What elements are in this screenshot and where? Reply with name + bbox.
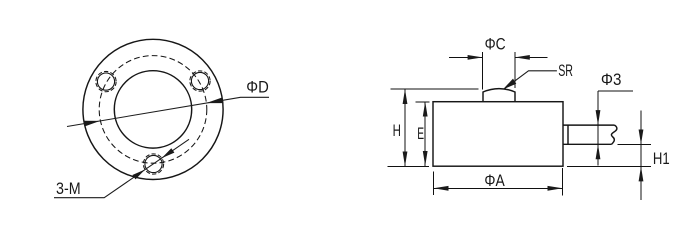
leader shoulder Phi3: [598, 90, 633, 92]
arrowhead PhiD right: [206, 97, 223, 103]
bolt hole 2 (upper right) solid circle: [191, 72, 208, 89]
dimension line Phi3 through cable: [597, 125, 599, 144]
arrowhead PhiC right: [515, 55, 530, 60]
arrowhead E up: [423, 102, 428, 117]
dimension line PhiC left segment: [449, 56, 483, 58]
dimension line Phi3 lower shaft: [597, 144, 599, 165]
svg-text:H: H: [393, 122, 401, 140]
extension line H1 at body bottom: [567, 165, 651, 167]
flange inner bore circle: [114, 71, 191, 148]
arrowhead H1 up: [639, 166, 644, 181]
bolt hole 1 thread dashed circle: [96, 71, 116, 91]
cable bottom line: [563, 143, 612, 145]
extension line PhiA left: [433, 171, 435, 195]
dimension line PhiA: [434, 187, 563, 189]
arrowhead Phi3 down: [596, 110, 601, 125]
arrowhead H up: [403, 89, 408, 104]
dimension line PhiC right segment: [515, 56, 548, 58]
svg-text:SR: SR: [558, 62, 573, 80]
dimension line H: [404, 89, 406, 167]
bolt hole 3 (bottom) solid circle: [145, 155, 162, 172]
arrowhead PhiA left: [434, 186, 449, 191]
extension line at body top (E top): [416, 101, 430, 103]
arrowhead PhiC left: [468, 55, 483, 60]
load button boss with spherical top: [483, 89, 515, 102]
dimension line PhiD diagonal through flange: [67, 97, 269, 126]
dimension line H1 vertical: [640, 111, 642, 201]
svg-text:ΦC: ΦC: [485, 35, 506, 53]
svg-text:ΦD: ΦD: [246, 79, 269, 97]
arrowhead H1 down: [639, 130, 644, 145]
svg-text:ΦA: ΦA: [484, 172, 504, 190]
leader line SR: [504, 71, 557, 89]
extension line PhiC left: [482, 52, 484, 90]
bolt circle (dashed pitch circle): [99, 56, 207, 164]
svg-text:Φ3: Φ3: [601, 71, 622, 89]
arrowhead 3-M leader at hole near edge: [132, 170, 145, 180]
extension line PhiA right: [562, 168, 564, 196]
bolt hole 2 thread dashed circle: [190, 71, 210, 91]
arrowhead PhiD left: [84, 121, 101, 127]
arrowhead H down: [403, 152, 408, 167]
svg-text:E: E: [417, 125, 424, 143]
dimension line Phi3 upper shaft: [597, 91, 599, 125]
leader line 3-M: [54, 139, 189, 197]
extension line at body bottom left: [387, 166, 429, 168]
dimension line E: [424, 102, 426, 167]
arrowhead 3-M far side of hole: [162, 148, 175, 158]
flange outer circle: [83, 39, 223, 179]
svg-text:3-M: 3-M: [56, 180, 81, 198]
cable top line: [563, 124, 615, 126]
extension line at boss top (H top): [391, 88, 479, 90]
arrowhead PhiA right: [548, 186, 563, 191]
extension line H1 at cable bottom: [618, 144, 651, 146]
arrowhead SR leader: [503, 79, 516, 90]
svg-text:H1: H1: [653, 150, 670, 168]
cable gland vertical line: [567, 125, 569, 144]
arrowhead E down: [423, 151, 428, 166]
cable break squiggle: [611, 125, 616, 144]
load cell body rectangle: [433, 102, 563, 167]
bolt hole 1 (upper left) solid circle: [97, 73, 114, 90]
extension line PhiC right: [514, 52, 516, 88]
bolt hole 3 thread dashed circle: [143, 154, 163, 174]
arrowhead Phi3 up: [596, 144, 601, 159]
